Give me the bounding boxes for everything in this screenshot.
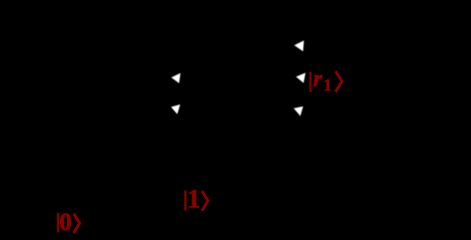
svg-text:1: 1 [323,76,332,95]
svg-text:0: 0 [59,207,72,235]
svg-text:r: r [313,66,323,91]
svg-text:1: 1 [187,184,200,214]
